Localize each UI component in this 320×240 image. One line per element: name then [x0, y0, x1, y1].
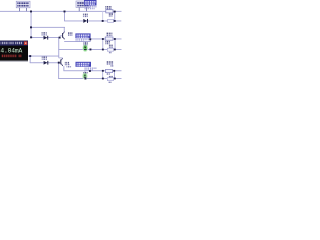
junction LED2 bottom node	[85, 78, 87, 80]
resistor R2 label below	[105, 41, 111, 44]
capacitor C2	[107, 48, 113, 51]
junction node D2 row corner	[30, 36, 32, 38]
wire LED1 anode pin x=86.7	[84, 41, 87, 45]
wire Q2 emitter rail y=70.6	[63, 69, 121, 72]
wire stage2 right rail x=115	[114, 39, 117, 50]
junction node LED1 rail	[90, 49, 92, 51]
wire right rail stage1 x=114.7	[113, 11, 116, 21]
wire stage2 left pair vertical x=102.8	[101, 39, 104, 50]
wire row B y=27.3	[31, 26, 65, 29]
wire stage2 top row y=38.9	[90, 38, 122, 41]
junction stage3 right bottom	[114, 78, 116, 80]
junction node D2 out	[59, 37, 61, 39]
svg-text:4.04mA: 4.04mA	[0, 47, 22, 54]
diode D2	[44, 36, 49, 40]
diode D1 label	[83, 14, 88, 18]
transistor Q1 label	[68, 32, 73, 36]
resistor R3 label above	[106, 61, 114, 66]
wire Q1 collector drop x=64.2	[63, 27, 66, 32]
junction stage2 right top	[114, 38, 116, 40]
component X1 box top-left	[16, 1, 30, 11]
junction stage2 left top	[102, 38, 104, 40]
diode D2 label	[41, 32, 46, 36]
capacitor C3	[107, 78, 113, 81]
junction emitter rail node	[89, 70, 91, 72]
junction D3 out node	[58, 62, 60, 64]
label PART3 value text	[84, 67, 97, 70]
label PART2 value text	[75, 39, 91, 42]
wire vertical x=64.5 net A down to D1 row	[63, 11, 66, 21]
junction node jog	[89, 38, 91, 40]
resistor R1	[106, 10, 113, 13]
resistor R1 label above	[105, 6, 112, 9]
LED D4 green glow	[83, 44, 88, 52]
transistor Q1	[60, 31, 65, 39]
junction ammeter node	[29, 55, 31, 57]
wire top row right stub	[113, 10, 122, 13]
wire vertical x=30.1 down to D3 row	[29, 56, 32, 63]
ammeter instrument window	[0, 41, 28, 62]
resistor R2	[105, 37, 113, 40]
junction node A1	[30, 11, 32, 13]
wire D1 row y=20.9	[64, 20, 121, 23]
junction stage3 right top	[113, 70, 115, 72]
wire stage3 left pair vertical x=102.7	[101, 71, 104, 79]
wire ammeter to node y=56	[28, 55, 59, 58]
wire bottom rail y=78.4	[58, 77, 121, 80]
junction node rowB	[30, 26, 32, 28]
capacitor C3 label above	[109, 76, 113, 78]
component X2 box top-middle	[76, 1, 90, 11]
wire top row net A	[0, 10, 106, 13]
wire stage2 bottom rail y=49.4	[58, 48, 121, 51]
junction node A3	[114, 11, 116, 13]
transistor Q2 label	[65, 62, 72, 68]
wire jog x=90.2	[89, 39, 92, 42]
diode D1	[83, 19, 88, 23]
junction stage2 right bottom	[114, 49, 116, 51]
label PART2 highlighted blue	[75, 33, 90, 38]
transistor Q2	[59, 58, 63, 67]
diode D3	[44, 61, 49, 65]
junction node B2	[114, 20, 116, 22]
wire left pair vertical stage1 x=102.7	[101, 11, 104, 21]
LED D5 green glow	[82, 72, 87, 79]
wire Q1 emitter rail y=41.4	[64, 40, 90, 43]
wire LED2 anode pin x=85.3	[84, 71, 87, 74]
label PART1 highlighted blue	[84, 0, 97, 6]
capacitor C2 label below	[109, 52, 112, 53]
wire Q2 emitter drop x=63.8	[62, 66, 65, 71]
junction stage3 left bottom	[102, 78, 104, 80]
wire vertical x=58.6 base node down to bottom rail	[57, 62, 60, 79]
junction stage3 left top	[102, 70, 104, 72]
capacitor C3 label below	[108, 82, 112, 83]
resistor R3 label below	[106, 73, 110, 74]
LED D5 label	[83, 72, 87, 73]
wire D2 row y=37.5	[31, 36, 60, 39]
wire stage3 right rail x=114.5	[113, 71, 116, 79]
resistor R2 label above	[106, 33, 113, 37]
diode D3 label	[42, 57, 47, 61]
junction node A2	[64, 11, 66, 13]
junction stage2 left bottom	[102, 49, 104, 51]
capacitor C2 label above	[109, 45, 113, 48]
wire vertical x=58.7 D2 row down to stage3 collector	[57, 37, 60, 57]
wire vertical x=31 from net A down to D2 row	[30, 11, 33, 38]
wire D3 row y=61.7	[30, 61, 61, 64]
label PART3 highlighted blue	[76, 62, 92, 67]
resistor R3	[106, 69, 113, 72]
label PART1 value text	[84, 6, 97, 9]
capacitor C1	[108, 19, 114, 22]
junction node B1	[102, 20, 104, 22]
LED D4 label	[83, 42, 88, 45]
resistor R1 label below	[109, 13, 113, 16]
